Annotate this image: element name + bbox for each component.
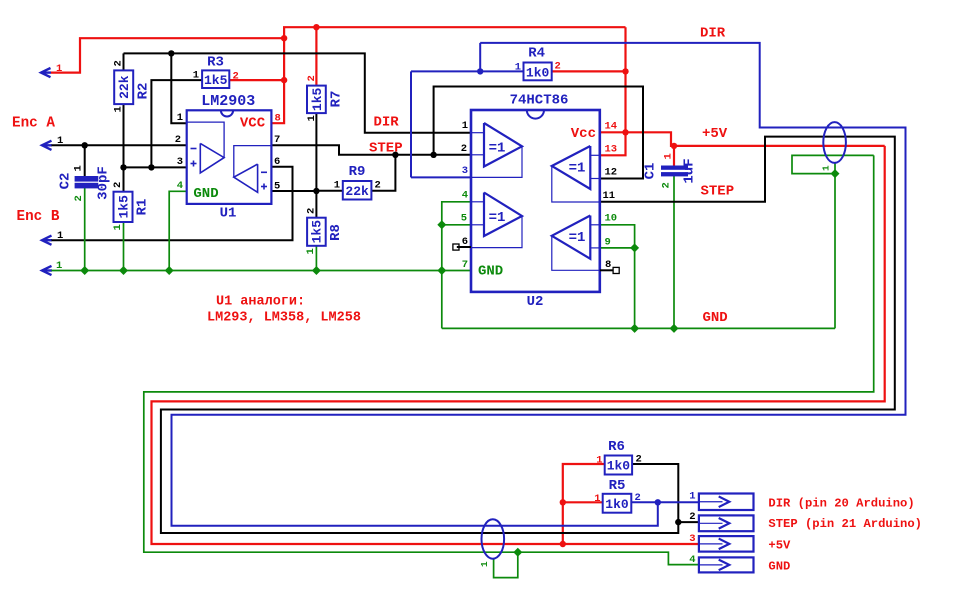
junction GND/U2.9 — [630, 243, 639, 252]
wire Enc B to U1 pin6 — [52, 167, 293, 240]
junction GND/R8.1 — [312, 266, 321, 275]
svg-text:LM293, LM358, LM258: LM293, LM358, LM258 — [207, 311, 361, 326]
pin label C2.2 — [73, 195, 85, 201]
pin label U1.2 — [175, 134, 181, 146]
wire node to U1 pin3 — [124, 166, 187, 168]
op-amp U1B comparator — [234, 146, 272, 193]
svg-text:22k: 22k — [117, 75, 132, 99]
junction GND/U1.4 — [165, 266, 174, 275]
wire U2 pin10 stub — [600, 225, 635, 329]
label R7 — [329, 91, 345, 108]
svg-text:1: 1 — [515, 62, 521, 74]
label R9 — [349, 164, 366, 180]
junction STEP/R9.2 — [392, 152, 398, 158]
pin label R3.2 — [233, 71, 239, 83]
pin label U2.11 — [603, 190, 616, 202]
junction EncA/C2 — [82, 142, 88, 148]
junction +5V/U1.8 branch — [281, 35, 287, 41]
pin label U2.13 — [605, 144, 618, 156]
wire +5V down right side and bottom loop — [152, 146, 885, 544]
resistor R8 body — [307, 218, 326, 246]
resistor R7 body — [307, 86, 326, 114]
junction GND under U2 — [630, 324, 639, 333]
svg-text:C1: C1 — [643, 163, 659, 180]
svg-text:22k: 22k — [345, 184, 369, 199]
label U2 Vcc — [571, 126, 596, 142]
svg-text:7: 7 — [274, 134, 280, 146]
resistor R4 body — [524, 63, 552, 81]
pin label 1 cable marker top — [821, 165, 832, 171]
label R1 — [135, 199, 151, 216]
svg-text:2: 2 — [112, 182, 124, 188]
svg-text:2: 2 — [636, 454, 642, 466]
svg-text:2: 2 — [73, 195, 85, 201]
connector label +5V — [768, 539, 791, 553]
value label R6 1k0 — [607, 459, 631, 474]
wire +5V drop to U1 pin 8 — [271, 38, 284, 123]
svg-text:DIR: DIR — [374, 114, 400, 130]
wire R9 pin1 leg — [316, 190, 342, 192]
value label R9 22k — [345, 184, 369, 199]
wire DIR up to top run — [479, 43, 481, 72]
svg-text:10: 10 — [605, 213, 618, 225]
svg-text:Enc B: Enc B — [17, 209, 60, 225]
svg-text:1: 1 — [479, 561, 490, 567]
xor U2 body — [471, 110, 600, 292]
svg-text:R1: R1 — [135, 199, 151, 216]
junction GND/U2.5 — [437, 220, 446, 229]
svg-text:2: 2 — [306, 208, 318, 214]
wire +5V rail down right side — [600, 27, 626, 155]
junction GND/U2.7 — [437, 266, 446, 275]
pin label R5.1 — [594, 493, 600, 505]
wire connector pin2 stub — [678, 521, 699, 523]
label R6 — [608, 439, 625, 455]
svg-text:1k5: 1k5 — [117, 195, 132, 219]
svg-text:GND: GND — [768, 559, 790, 573]
svg-text:4: 4 — [177, 180, 183, 192]
wire +5V top rail — [284, 27, 625, 38]
svg-text:11: 11 — [603, 190, 616, 202]
label 74HCT86 — [510, 93, 569, 109]
pin label U2.4 — [462, 190, 468, 202]
junction STEP-out/connector pin2 — [675, 519, 681, 525]
label R8 — [328, 224, 344, 241]
no-connect U2.8 — [600, 267, 619, 273]
svg-text:1: 1 — [596, 455, 602, 467]
pin label U2.1 — [462, 120, 468, 132]
svg-text:+5V: +5V — [768, 539, 791, 553]
value label R7 1k5 — [310, 88, 325, 112]
wire C2 pin1 stub — [84, 145, 86, 176]
svg-text:R7: R7 — [329, 91, 345, 108]
pin label U2.2 — [461, 143, 467, 155]
svg-text:2: 2 — [175, 134, 181, 146]
cable marker ellipse top — [823, 122, 846, 163]
pin label U2.14 — [605, 121, 618, 133]
svg-text:GND: GND — [703, 310, 728, 326]
wire R3 pin1 down to U1.3 node — [151, 80, 202, 167]
resistor R6 body — [605, 456, 632, 475]
pin label U1.6 — [274, 156, 280, 168]
svg-text:DIR: DIR — [700, 25, 726, 41]
capacitor C2 plate 1 — [75, 177, 98, 182]
svg-text:R6: R6 — [608, 439, 625, 455]
svg-text:R2: R2 — [136, 83, 152, 100]
svg-text:9: 9 — [605, 236, 611, 248]
junction R5.1/+5V — [560, 499, 566, 505]
svg-text:1: 1 — [112, 224, 124, 230]
wire GND horizontal under U2 — [442, 327, 835, 329]
net label STEP (right) — [701, 184, 735, 200]
svg-text:13: 13 — [605, 144, 618, 156]
wire C1 pin1 stub — [673, 146, 675, 166]
label C1 — [643, 163, 659, 180]
junction +5V bottom rail — [560, 541, 566, 547]
wire U1 pin4 stub — [169, 191, 187, 270]
pin label U1.3 — [177, 156, 183, 168]
pin label R7.2 — [306, 75, 318, 81]
svg-text:2: 2 — [375, 180, 381, 192]
svg-text:2: 2 — [233, 71, 239, 83]
svg-text:1: 1 — [462, 120, 468, 132]
wire R7 pin2 to +5V rail — [315, 27, 317, 85]
wire GND big loop to connector — [144, 155, 874, 564]
svg-text:1k5: 1k5 — [310, 88, 325, 112]
wire U2 pin9 stub — [600, 247, 635, 249]
resistor R2 body — [114, 70, 133, 104]
svg-text:GND: GND — [193, 186, 218, 202]
pin label R8.1 — [305, 248, 317, 254]
junction GND/C2.2 — [80, 266, 89, 275]
svg-text:DIR (pin 20 Arduino): DIR (pin 20 Arduino) — [768, 496, 914, 510]
wire GND bus to U2 pin7 — [52, 270, 472, 272]
svg-text:1uF: 1uF — [682, 158, 698, 183]
svg-text:30pF: 30pF — [96, 166, 112, 200]
wire DIR to R4 pin1 — [411, 70, 524, 72]
resistor R5 body — [603, 494, 632, 513]
label U1 — [220, 206, 237, 222]
svg-text:GND: GND — [478, 264, 503, 280]
pin label R3.1 — [193, 70, 199, 82]
svg-text:7: 7 — [462, 259, 468, 271]
svg-text:4: 4 — [689, 554, 695, 566]
wire U1 pin5 line — [271, 190, 316, 192]
svg-text:3: 3 — [462, 165, 468, 177]
svg-text:5: 5 — [274, 180, 280, 192]
connector label GND — [768, 559, 790, 573]
resistor R3 body — [202, 70, 229, 88]
op-amp U1A comparator — [187, 122, 224, 173]
pin label U1.7 — [274, 134, 280, 146]
pin label R6.1 — [596, 455, 602, 467]
label R2 — [136, 83, 152, 100]
pin label C1.1 — [663, 153, 675, 159]
junction R7.2/+5V rail — [313, 24, 319, 30]
pin label R8.2 — [306, 208, 318, 214]
wire C2 pin2 stub — [84, 188, 86, 271]
connector pin 2 (STEP) — [689, 511, 753, 531]
label U1 GND — [193, 186, 218, 202]
wire U2 pin11 to right riser — [161, 137, 895, 533]
svg-text:1: 1 — [113, 106, 125, 112]
wire U2 pin12 feedback loop — [434, 87, 643, 179]
wire GND riser right — [834, 174, 836, 329]
pin label U1.5 — [274, 180, 280, 192]
wire R5 pin2 to connector pin1 — [631, 501, 699, 503]
value label R4 1k0 — [526, 65, 550, 80]
wire R6 pin1 — [563, 464, 605, 544]
value label R3 1k5 — [204, 73, 228, 88]
value label R8 1k5 — [310, 220, 325, 244]
svg-text:12: 12 — [605, 167, 618, 179]
connector label DIR — [768, 496, 914, 510]
junction GND/C1.2 — [670, 324, 679, 333]
junction STEP/U2.12 loop — [430, 152, 436, 158]
label U1 VCC — [240, 116, 266, 132]
pin label R5.2 — [635, 492, 641, 504]
connector label STEP — [768, 517, 922, 531]
svg-text:U1: U1 — [220, 206, 237, 222]
svg-text:1k5: 1k5 — [204, 73, 228, 88]
wire DIR U2 pin3 to riser — [411, 176, 471, 178]
svg-text:1: 1 — [177, 112, 183, 124]
svg-text:R5: R5 — [609, 478, 626, 494]
wire R5 pin1 — [563, 501, 603, 503]
svg-text:5: 5 — [461, 213, 467, 225]
pin label R1.2 — [112, 182, 124, 188]
svg-text:STEP: STEP — [701, 184, 735, 200]
svg-text:VCC: VCC — [240, 116, 266, 132]
pin label R9.2 — [375, 180, 381, 192]
svg-text:STEP: STEP — [369, 140, 403, 156]
svg-text:1: 1 — [73, 165, 85, 171]
wire U2 pin4 stub — [442, 202, 471, 329]
label U2 — [527, 294, 544, 310]
svg-text:Vcc: Vcc — [571, 126, 596, 142]
xor gate U2A — [471, 123, 522, 177]
junction R3.1/U1.3 — [148, 164, 154, 170]
wire net U1.1 top rail — [124, 53, 472, 132]
resistor R1 body — [114, 192, 133, 222]
wire R9 pin2 leg — [371, 155, 395, 191]
svg-text:U1 аналоги:: U1 аналоги: — [216, 295, 305, 310]
svg-text:Enc A: Enc A — [12, 116, 55, 132]
junction R2.1/R1.2/U1.3 — [120, 164, 126, 170]
svg-text:=1: =1 — [569, 230, 586, 246]
xor gate U2B — [471, 193, 522, 248]
port Enc B arrow — [42, 230, 63, 245]
svg-text:1: 1 — [193, 70, 199, 82]
connector pin 1 (DIR) — [689, 491, 753, 511]
junction U1.1/top rail — [168, 50, 174, 56]
svg-text:2: 2 — [461, 143, 467, 155]
capacitor C1 plate 2 — [662, 173, 688, 176]
svg-text:R8: R8 — [328, 224, 344, 241]
connector pin 3 (+5V) — [689, 533, 753, 552]
wire C1 pin2 stub — [673, 176, 675, 329]
svg-text:2: 2 — [689, 511, 695, 523]
wire U1 pin1 stub — [171, 53, 186, 123]
svg-text:3: 3 — [177, 156, 183, 168]
value label 1uF — [682, 158, 698, 183]
pin label R1.1 — [112, 224, 124, 230]
svg-text:1: 1 — [306, 115, 318, 121]
pin label U2.10 — [605, 213, 618, 225]
wire R4 pin2 to +5V — [552, 70, 626, 72]
junction R3.2/+5V — [281, 77, 287, 83]
pin label U2.8 — [605, 259, 611, 271]
wire Enc A to U1 pin2 — [52, 144, 187, 146]
svg-text:2: 2 — [635, 492, 641, 504]
svg-text:R3: R3 — [207, 55, 224, 71]
junction GND cable marker — [831, 169, 840, 178]
svg-text:2: 2 — [555, 61, 561, 73]
pin label U2.5 — [461, 213, 467, 225]
value label R2 22k — [117, 75, 132, 99]
svg-text:U2: U2 — [527, 294, 544, 310]
xor gate U2D — [552, 146, 600, 202]
svg-text:1k5: 1k5 — [310, 220, 325, 244]
wire R1 pin1 stub — [123, 222, 125, 271]
wire U2 pin14 Vcc — [600, 131, 626, 133]
pin label 1 cable marker bottom — [479, 561, 490, 567]
pin label U1.1 — [177, 112, 183, 124]
connector pin 4 (GND) — [689, 554, 753, 573]
value label R5 1k0 — [605, 497, 629, 512]
net label Enc B — [17, 209, 60, 225]
capacitor C2 plate 2 — [75, 183, 98, 188]
svg-text:1k0: 1k0 — [607, 459, 631, 474]
wire R3 pin2 to +5V — [229, 79, 284, 81]
junction R4.2/+5V — [622, 68, 628, 74]
junction U2.14/+5V — [622, 129, 628, 135]
pin label R6.2 — [636, 454, 642, 466]
junction GND bottom cable marker — [513, 548, 522, 557]
svg-text:LM2903: LM2903 — [201, 93, 255, 110]
label R4 — [528, 45, 545, 61]
svg-text:3: 3 — [689, 533, 695, 545]
port GND arrow — [42, 260, 62, 275]
wire R8 pin2 stub — [315, 191, 317, 218]
svg-text:2: 2 — [113, 60, 125, 66]
note U1 analogs line2 — [207, 311, 361, 326]
net label +5V — [702, 126, 728, 142]
net label Enc A — [12, 116, 55, 132]
svg-text:1k0: 1k0 — [526, 65, 550, 80]
wire GND jumper at bottom cable marker — [494, 552, 518, 577]
port Enc A arrow — [42, 135, 63, 150]
svg-text:1: 1 — [821, 165, 832, 171]
svg-text:=1: =1 — [489, 140, 506, 156]
value label 30pF — [96, 166, 112, 200]
net label STEP (left) — [369, 140, 403, 156]
wire +5V from port to top rail — [51, 38, 284, 72]
pin label C1.2 — [661, 182, 673, 188]
pin label R4.2 — [555, 61, 561, 73]
svg-text:2: 2 — [306, 75, 318, 81]
pin label U2.9 — [605, 236, 611, 248]
wire R7 pin1 drop — [315, 113, 317, 191]
pin label U2.3 — [462, 165, 468, 177]
svg-text:STEP (pin 21 Arduino): STEP (pin 21 Arduino) — [768, 517, 922, 531]
svg-text:8: 8 — [275, 113, 281, 125]
svg-text:R9: R9 — [349, 164, 366, 180]
xor gate U2C — [552, 216, 600, 271]
wire R6 pin2 leg — [632, 464, 678, 522]
wire GND stub into cable marker 1 — [834, 163, 836, 174]
pin label U2.12 — [605, 167, 618, 179]
port 1 (+5V input) arrow — [41, 63, 62, 77]
pin label C2.1 — [73, 165, 85, 171]
svg-text:1k0: 1k0 — [605, 497, 629, 512]
no-connect U2.6 — [453, 244, 471, 250]
net label DIR (top right) — [700, 25, 726, 41]
svg-text:6: 6 — [274, 156, 280, 168]
wire +5V to right edge — [626, 132, 885, 146]
junction GND/R1.1 — [119, 266, 128, 275]
svg-text:4: 4 — [462, 190, 468, 202]
pin label R9.1 — [334, 180, 340, 192]
pin label R4.1 — [515, 62, 521, 74]
resistor R9 body — [343, 181, 372, 200]
cable marker ellipse bottom — [482, 519, 505, 558]
net label GND (right) — [703, 310, 728, 326]
label U2 GND — [478, 264, 503, 280]
svg-text:1: 1 — [305, 248, 317, 254]
pin label U2.6 — [462, 236, 468, 248]
svg-text:1: 1 — [663, 153, 675, 159]
svg-text:1: 1 — [334, 180, 340, 192]
svg-text:=1: =1 — [569, 161, 586, 177]
value label R1 1k5 — [117, 195, 132, 219]
junction DIR/R4.1 branch — [477, 68, 483, 74]
pin label R2.1 — [113, 106, 125, 112]
svg-text:R4: R4 — [528, 45, 545, 61]
svg-text:+5V: +5V — [702, 126, 728, 142]
label R5 — [609, 478, 626, 494]
pin label U1.8 — [275, 113, 281, 125]
svg-text:14: 14 — [605, 121, 618, 133]
wire R2.1-R1.2 vertical — [123, 104, 125, 192]
junction C1.1/+5V — [671, 143, 677, 149]
junction DIR/connector pin1 — [655, 499, 661, 505]
pin label U1.4 — [177, 180, 183, 192]
svg-text:1: 1 — [689, 491, 695, 503]
wire DIR riser — [410, 71, 412, 177]
junction U1.5/R7.1/R9.1/R8.2 — [313, 188, 319, 194]
capacitor C1 plate 1 — [662, 166, 688, 169]
wire R2 pin2 stub — [123, 53, 125, 70]
label R3 — [207, 55, 224, 71]
svg-text:C2: C2 — [58, 173, 74, 190]
pin label U2.7 — [462, 259, 468, 271]
svg-text:2: 2 — [661, 182, 673, 188]
svg-text:1: 1 — [594, 493, 600, 505]
pin label R2.2 — [113, 60, 125, 66]
wire U2 pin5 stub — [442, 224, 471, 226]
op-amp U1 body — [187, 110, 272, 204]
wire DIR top run and right riser — [172, 43, 906, 526]
wire GND jog at cable marker — [792, 155, 874, 173]
svg-text:74HCT86: 74HCT86 — [510, 93, 569, 109]
net label DIR (left) — [374, 114, 400, 130]
wire U1 pin7 to U2 pin2 — [271, 145, 471, 155]
label C2 — [58, 173, 74, 190]
pin label R7.1 — [306, 115, 318, 121]
label LM2903 — [201, 93, 255, 110]
wire R8 pin1 stub — [315, 246, 317, 271]
